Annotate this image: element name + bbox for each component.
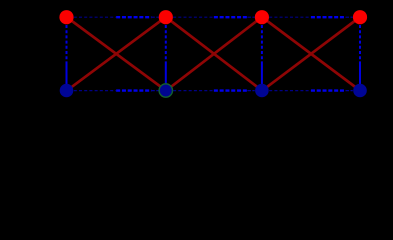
wire: bottom chain dashed bond B2-B3 (thick blue half) (214, 89, 248, 91)
node B4: navy site bottom row (353, 84, 367, 98)
wire: rung bond column 1 (solid lower part) (66, 62, 68, 85)
wire: top chain dashed bond T3-T4 (thick blue half) (311, 16, 346, 18)
wire: bottom chain dashed bond B3-B4 (thin navy half) (269, 90, 311, 92)
wire: top chain dashed bond T3-T4 (thin dim tail) (346, 16, 353, 18)
node T4: red site top row (353, 10, 367, 24)
node T3: red site top row (255, 10, 269, 24)
wire: rung bond column 2 (solid lower part) (165, 62, 167, 85)
wire: bottom chain dashed bond B1-B2 (thin dim tail) (151, 90, 158, 92)
wire: red diagonal bond T1-B2 (67, 17, 166, 91)
wire: top chain dashed bond T1-T2 (thick blue half) (116, 16, 151, 18)
wire: top chain dashed bond T2-T3 (thick blue half) (214, 16, 248, 18)
wire: bottom chain dashed bond B2-B3 (thin dim tail) (247, 90, 254, 92)
wire: rung bond column 3 (dashed upper part) (261, 25, 263, 62)
wire: rung bond column 3 (solid lower part) (261, 62, 263, 85)
wire: red diagonal bond T3-B4 (262, 17, 360, 91)
node B1: navy site bottom row (60, 84, 74, 98)
wire: red diagonal bond B3-T4 (262, 17, 360, 91)
wire: red diagonal bond T2-B3 (166, 17, 262, 91)
lattice diagram (0, 0, 393, 109)
wire: rung bond column 4 (solid lower part) (359, 62, 361, 85)
wire: top chain dashed bond T2-T3 (thin dim tail) (247, 16, 254, 18)
wire: bottom chain dashed bond B1-B2 (thin navy half) (74, 90, 116, 92)
wire: bottom chain dashed bond B3-B4 (thick blue half) (311, 89, 346, 91)
wire: rung bond column 1 (dashed upper part) (66, 25, 68, 62)
node T2: red site top row (159, 10, 173, 24)
wire: rung bond column 2 (dashed upper part) (165, 25, 167, 62)
wire: top chain dashed bond T3-T4 (thin navy half) (269, 16, 311, 18)
wire: bottom chain dashed bond B2-B3 (thin navy half) (173, 90, 214, 92)
wire: red diagonal bond B1-T2 (67, 17, 166, 91)
node T1: red site top row (59, 10, 73, 24)
wire: bottom chain dashed bond B3-B4 (thin dim tail) (346, 90, 353, 92)
wire: red diagonal bond B2-T3 (166, 17, 262, 91)
wire: bottom chain dashed bond B1-B2 (thick blue half) (116, 89, 151, 91)
wire: top chain dashed bond T2-T3 (thin navy half) (173, 16, 214, 18)
node B3: navy site bottom row (255, 84, 269, 98)
wire: top chain dashed bond T1-T2 (thin dim tail) (151, 16, 158, 18)
wire: rung bond column 4 (dashed upper part) (359, 25, 361, 62)
wire: top chain dashed bond T1-T2 (thin navy half) (74, 16, 116, 18)
node B2: navy site bottom row with green ring (159, 84, 172, 97)
